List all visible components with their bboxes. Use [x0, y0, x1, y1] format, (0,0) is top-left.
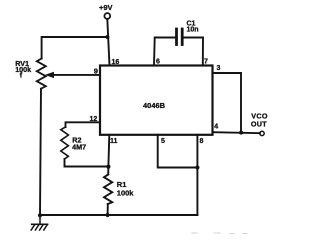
svg-text:4: 4 [214, 124, 218, 131]
resistor R2 [61, 127, 69, 159]
wire pin 3 right and down to output node [213, 73, 242, 133]
svg-text:100k: 100k [15, 65, 31, 74]
svg-text:8: 8 [200, 138, 204, 145]
IC U1 4046B [100, 66, 213, 135]
svg-text:6: 6 [156, 59, 160, 66]
wire pin 5 down and right to pin 8 wire [158, 135, 198, 168]
label R2 4M7 [72, 136, 86, 152]
wire supply junction to RV1 top [42, 37, 108, 59]
+9V supply terminal [104, 13, 110, 19]
wire C1 right plate to pin 7 [183, 38, 203, 66]
svg-text:16: 16 [112, 59, 120, 66]
VCO OUT terminal [260, 131, 264, 135]
wire pin 4 to VCO OUT terminal [213, 132, 260, 133]
label R1 100k [117, 180, 135, 198]
node supply junction [105, 35, 109, 39]
node R2/pin11/R1 junction [106, 165, 110, 169]
svg-text:+9V: +9V [99, 3, 113, 12]
label RV1 100k f [15, 59, 31, 79]
capacitor C1 [177, 29, 183, 45]
potentiometer RV1 [37, 59, 46, 89]
label VCO OUT [251, 112, 268, 129]
svg-text:R1: R1 [117, 180, 127, 189]
svg-text:3: 3 [217, 65, 221, 72]
wire pin 12 left and down to R2 top [66, 122, 101, 127]
svg-text:9: 9 [94, 67, 98, 76]
ground symbol [31, 215, 47, 230]
svg-text:4046B: 4046B [143, 101, 166, 110]
wire R2 bottom to pin11/R1 node [65, 159, 109, 167]
wire pin 8 down to ground rail [196, 135, 198, 215]
wire node to R1 top [107, 167, 109, 175]
resistor R1 [104, 175, 112, 205]
svg-text:4M7: 4M7 [72, 143, 86, 152]
wire R1 bottom to ground rail [107, 204, 109, 215]
node pin5/pin8 junction [195, 165, 199, 169]
svg-text:5: 5 [161, 138, 165, 145]
wire +9V terminal down to IC pin 16 [107, 19, 109, 66]
svg-text:100k: 100k [117, 189, 135, 198]
label C1 10n [187, 21, 199, 34]
svg-text:OUT: OUT [251, 119, 267, 128]
faint scan artifact dashes [192, 232, 247, 235]
node pin3/pin4 junction [239, 131, 243, 135]
wire RV1 bottom to ground rail [40, 89, 41, 215]
wire pin 6 up to C1 left plate [154, 38, 175, 66]
wire RV1 wiper to pin 9 [53, 74, 100, 76]
svg-text:11: 11 [110, 138, 118, 145]
node R1/ground rail [106, 213, 110, 217]
svg-text:10n: 10n [187, 27, 199, 34]
ground rail [40, 214, 197, 216]
node ground rail left [38, 213, 42, 217]
svg-text:7: 7 [204, 59, 208, 66]
RV1 wiper arrowhead [45, 72, 54, 78]
wire pin 11 down to node [107, 135, 110, 167]
